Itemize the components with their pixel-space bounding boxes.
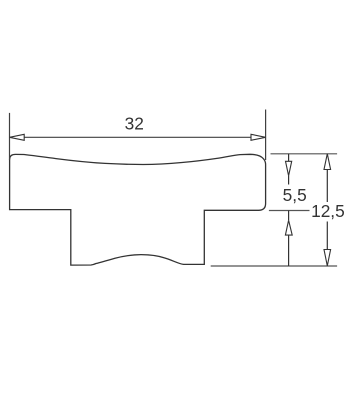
svg-text:12,5: 12,5: [311, 201, 345, 221]
svg-text:5,5: 5,5: [283, 185, 307, 205]
svg-text:32: 32: [125, 113, 144, 133]
